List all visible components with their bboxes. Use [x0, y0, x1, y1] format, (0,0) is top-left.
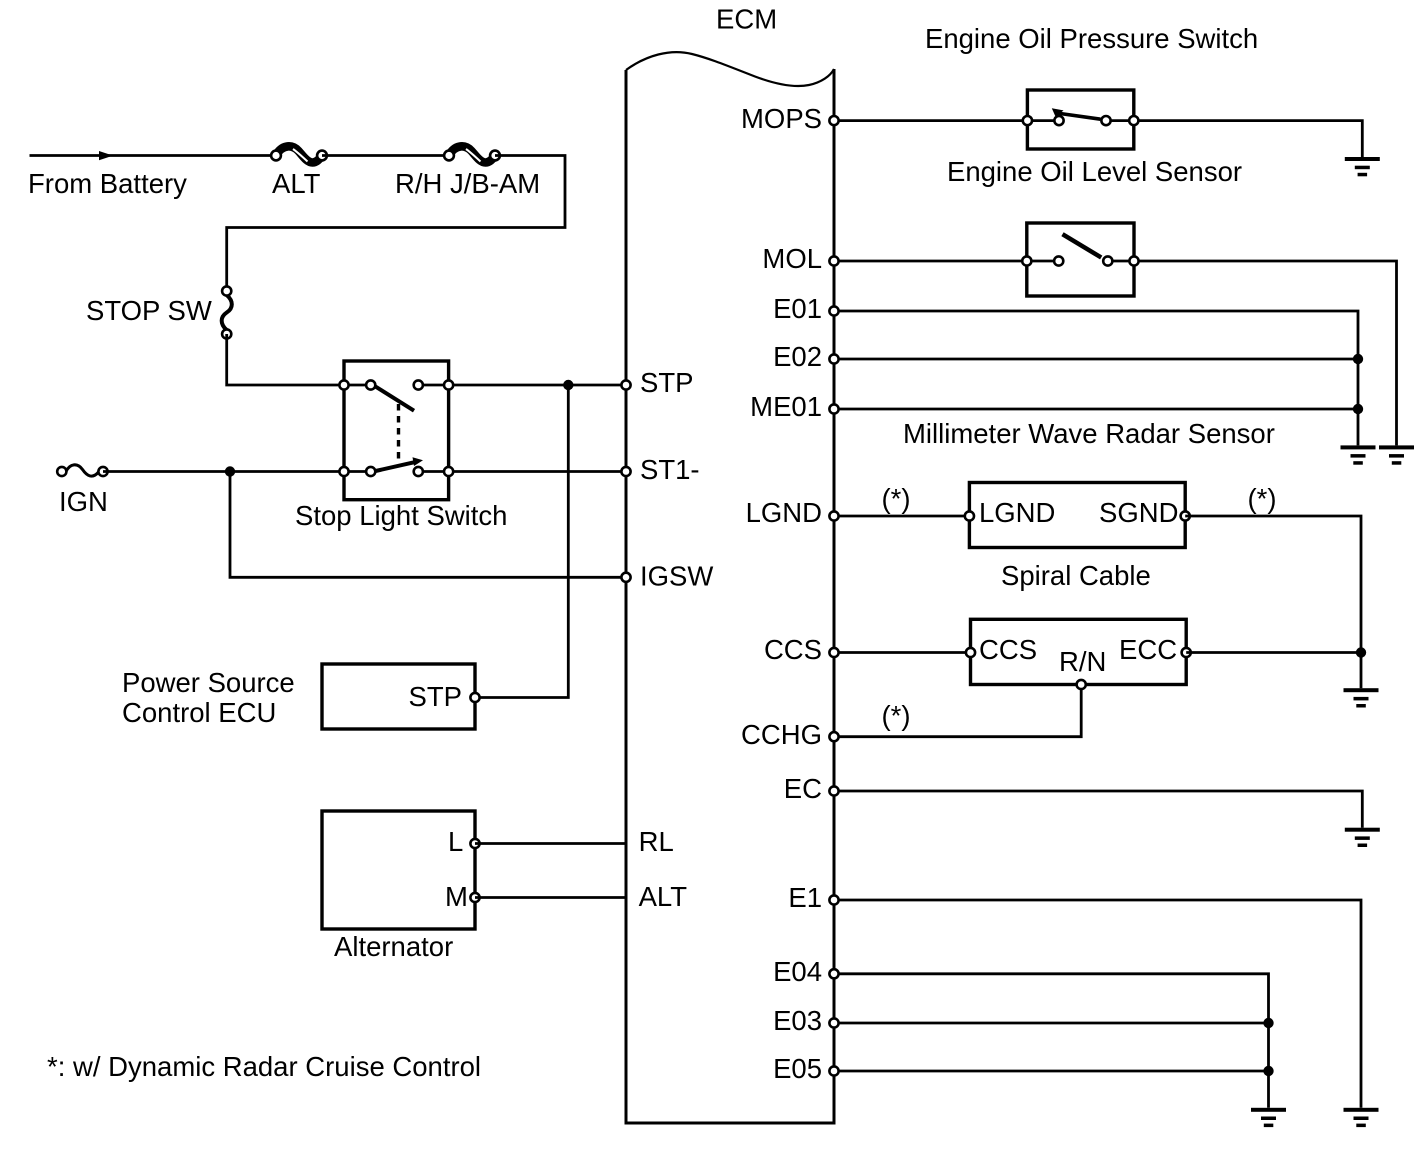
stop light switch pins	[339, 380, 453, 476]
svg-text:IGN: IGN	[59, 486, 108, 517]
ECM pin STP	[621, 367, 693, 398]
Power Source Control ECU box	[322, 664, 475, 729]
svg-text:Power Source: Power Source	[122, 667, 295, 698]
wire E1 to ground	[834, 900, 1361, 1108]
alternator box	[322, 811, 475, 929]
svg-text:ALT: ALT	[639, 881, 688, 912]
wire IGN to stop light switch	[103, 470, 371, 473]
label (*) CCHG	[881, 700, 910, 731]
svg-text:CCHG: CCHG	[741, 719, 822, 750]
label Alternator	[334, 931, 453, 962]
svg-text:E04: E04	[773, 956, 822, 987]
svg-text:Engine Oil Level Sensor: Engine Oil Level Sensor	[947, 156, 1242, 187]
svg-text:STP: STP	[409, 681, 462, 712]
svg-text:EC: EC	[784, 773, 822, 804]
label LGND inside spiral cable	[979, 497, 1055, 528]
ground G1 oil pressure switch	[1345, 157, 1380, 176]
label (*) right of spiral cable	[1247, 483, 1276, 514]
junction E02	[1353, 354, 1363, 364]
svg-text:Millimeter Wave Radar Sensor: Millimeter Wave Radar Sensor	[903, 418, 1275, 449]
radar box pin R/N	[1077, 680, 1086, 689]
svg-text:ME01: ME01	[750, 391, 822, 422]
svg-text:RL: RL	[639, 826, 674, 857]
svg-text:STOP SW: STOP SW	[86, 295, 212, 326]
engine oil pressure switch box	[1027, 90, 1133, 149]
svg-text:From Battery: From Battery	[28, 168, 187, 199]
wire E03	[834, 1022, 1269, 1025]
svg-text:STP: STP	[640, 367, 693, 398]
junction E05	[1263, 1066, 1273, 1076]
pin STP of Power Source Control ECU	[470, 693, 479, 702]
ECM pin ME01	[750, 391, 838, 422]
fusible link ALT	[271, 146, 327, 162]
svg-text:ECM: ECM	[716, 4, 777, 35]
label Engine Oil Pressure Switch	[925, 23, 1258, 54]
wire E04 to ground	[834, 974, 1269, 1108]
wire stop light switch to ST1- pin	[418, 470, 626, 473]
ECM pin E1	[788, 882, 838, 913]
wire E01 to ground	[834, 311, 1358, 445]
ECM pin E03	[773, 1005, 839, 1036]
label From Battery	[28, 168, 187, 199]
svg-text:R/N: R/N	[1059, 646, 1106, 677]
svg-text:(*): (*)	[881, 700, 910, 731]
ECM pin MOPS	[741, 103, 839, 134]
spiral cable box	[969, 483, 1185, 548]
wire IGN node to IGSW pin	[230, 472, 626, 578]
ECM pin ST1-	[621, 454, 699, 485]
label Power Source Control ECU	[122, 667, 295, 728]
label L pin	[448, 826, 463, 857]
junction STP node	[563, 380, 573, 390]
wire oil level sensor to ground	[1108, 261, 1397, 445]
wire oil pressure switch to ground	[1106, 121, 1362, 157]
fuse STOP SW	[222, 286, 232, 338]
ground G2 E01 E02 ME01	[1341, 445, 1376, 464]
svg-text:(*): (*)	[1247, 483, 1276, 514]
label ALT	[272, 168, 321, 199]
spiral cable pin SGND	[1181, 511, 1190, 520]
spiral cable pin LGND	[965, 511, 974, 520]
label ECC inside box	[1119, 634, 1177, 665]
wire MOL to oil level sensor	[834, 260, 1059, 263]
wire from battery	[30, 151, 277, 160]
ECM pin CCHG	[741, 719, 839, 750]
svg-text:ST1-: ST1-	[640, 454, 700, 485]
label R/H J/B-AM	[395, 168, 540, 199]
svg-text:Alternator: Alternator	[334, 931, 453, 962]
radar box pin CCS	[966, 648, 975, 657]
svg-text:M: M	[445, 881, 468, 912]
ground G3 MOL	[1379, 445, 1414, 464]
label STOP SW	[86, 295, 212, 326]
junction ECC ground node	[1356, 647, 1366, 657]
wire CCS to radar sensor	[834, 651, 971, 654]
label Stop Light Switch	[295, 500, 507, 531]
wire stop light switch to STP pin	[418, 384, 626, 387]
ECM pin LGND	[746, 497, 839, 528]
connector IGN	[57, 465, 107, 476]
svg-text:LGND: LGND	[746, 497, 822, 528]
wire E02	[834, 358, 1358, 361]
junction ME01	[1353, 404, 1363, 414]
svg-text:E05: E05	[773, 1053, 822, 1084]
wire M to ALT	[475, 896, 626, 899]
svg-text:E02: E02	[773, 341, 822, 372]
label ECM	[716, 4, 777, 35]
label STP inside Power Source Control ECU	[409, 681, 462, 712]
label Engine Oil Level Sensor	[947, 156, 1242, 187]
svg-text:ALT: ALT	[272, 168, 321, 199]
label R/N inside box	[1059, 646, 1106, 677]
svg-text:IGSW: IGSW	[640, 560, 713, 591]
svg-text:(*): (*)	[881, 483, 910, 514]
wire to STOP SW	[227, 156, 565, 292]
svg-text:Engine Oil Pressure Switch: Engine Oil Pressure Switch	[925, 23, 1258, 54]
oil level sensor pins	[1022, 256, 1138, 265]
stop light switch contact blade bottom	[376, 457, 424, 471]
ground G5 EC	[1345, 828, 1380, 847]
ECM pin E01	[773, 293, 839, 324]
label IGN	[59, 486, 108, 517]
label SGND inside spiral cable	[1099, 497, 1178, 528]
wire STOP SW to stop light switch	[227, 334, 371, 385]
label M pin	[445, 881, 468, 912]
svg-text:*: w/ Dynamic Radar Cruise Con: *: w/ Dynamic Radar Cruise Control	[47, 1051, 481, 1082]
oil pressure switch pins	[1023, 116, 1139, 125]
svg-text:Spiral Cable: Spiral Cable	[1001, 560, 1151, 591]
svg-text:Stop Light Switch: Stop Light Switch	[295, 500, 507, 531]
stop light switch contact blade top	[376, 387, 415, 411]
stop light switch dashed link	[397, 404, 400, 460]
alternator pin M	[470, 893, 479, 902]
ground G4 spiral cable	[1344, 688, 1379, 707]
fusible link R/H J/B-AM	[444, 146, 500, 162]
ECM pin E04	[773, 956, 839, 987]
radar sensor CCS box	[971, 619, 1187, 684]
oil level sensor blade	[1063, 234, 1102, 257]
junction IGN node	[225, 466, 235, 476]
wire ALT to R/H J/B-AM	[322, 154, 449, 157]
wire L to RL	[475, 842, 626, 845]
label RL	[639, 826, 674, 857]
ECM box	[625, 52, 836, 1123]
ECM pin MOL	[762, 243, 838, 274]
svg-text:MOPS: MOPS	[741, 103, 822, 134]
wire STP node to Power Source Control ECU	[475, 385, 568, 698]
ECM pin E05	[773, 1053, 839, 1084]
oil pressure switch blade	[1052, 108, 1101, 119]
ECM pin IGSW	[621, 560, 713, 591]
svg-text:E01: E01	[773, 293, 822, 324]
engine oil level sensor box	[1027, 223, 1134, 296]
svg-text:E03: E03	[773, 1005, 822, 1036]
svg-text:ECC: ECC	[1119, 634, 1177, 665]
wire LGND to spiral cable	[834, 515, 969, 518]
wire E05	[834, 1070, 1269, 1073]
note dynamic radar cruise control	[47, 1051, 481, 1082]
label Millimeter Wave Radar Sensor	[903, 418, 1275, 449]
wire EC to ground	[834, 791, 1362, 828]
stop light switch box	[344, 361, 449, 500]
wire MOPS to oil pressure switch	[834, 119, 1059, 122]
label ALT pin	[639, 881, 688, 912]
ECM pin EC	[784, 773, 839, 804]
svg-text:R/H J/B-AM: R/H J/B-AM	[395, 168, 540, 199]
label Spiral Cable	[1001, 560, 1151, 591]
svg-text:SGND: SGND	[1099, 497, 1178, 528]
wire SGND to ground	[1185, 516, 1361, 688]
label CCS inside box	[979, 634, 1037, 665]
svg-text:MOL: MOL	[762, 243, 822, 274]
wire ECC to ground node	[1186, 651, 1361, 654]
junction E03	[1263, 1018, 1273, 1028]
wire ME01	[834, 408, 1358, 411]
ground G6 E04 E03 E05	[1251, 1108, 1286, 1127]
ECM pin CCS	[764, 634, 839, 665]
svg-text:L: L	[448, 826, 463, 857]
ground G7 E1	[1344, 1108, 1379, 1127]
svg-text:Control ECU: Control ECU	[122, 697, 276, 728]
ECM pin E02	[773, 341, 839, 372]
svg-text:CCS: CCS	[979, 634, 1037, 665]
svg-text:E1: E1	[788, 882, 822, 913]
wire R/N to CCHG	[834, 685, 1081, 737]
alternator pin L	[470, 839, 479, 848]
svg-text:LGND: LGND	[979, 497, 1055, 528]
label (*) left of spiral cable	[881, 483, 910, 514]
svg-text:CCS: CCS	[764, 634, 822, 665]
radar box pin ECC	[1182, 648, 1191, 657]
